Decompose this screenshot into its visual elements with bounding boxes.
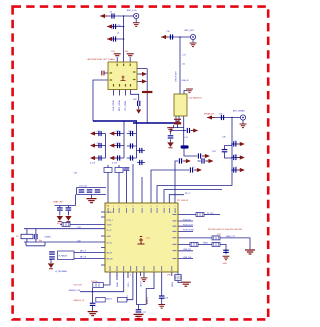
svg-text:JADD01_1k: JADD01_1k (74, 299, 85, 302)
svg-text:VBAT_RF: VBAT_RF (53, 201, 63, 204)
svg-text:4: 4 (116, 275, 117, 277)
svg-text:5: 5 (126, 206, 127, 208)
svg-text:T_06: T_06 (146, 238, 150, 240)
svg-text:GPIO2: GPIO2 (141, 281, 143, 287)
svg-text:GND: GND (223, 263, 228, 265)
svg-text:XO_N: XO_N (107, 242, 113, 244)
svg-text:USB_DP: USB_DP (183, 249, 192, 251)
svg-text:4: 4 (151, 206, 152, 208)
svg-text:RF_P: RF_P (185, 193, 191, 195)
svg-text:DET_SD08: DET_SD08 (119, 100, 121, 111)
svg-text:PCM_IN: PCM_IN (183, 219, 191, 221)
svg-text:R22 DNI 0402 1% 10k0 R23 0402: R22 DNI 0402 1% 10k0 R23 0402 NM (208, 229, 242, 231)
svg-text:OW_1V8: OW_1V8 (74, 284, 83, 286)
svg-text:0.1uF: 0.1uF (90, 163, 96, 165)
svg-text:SDA1: SDA1 (116, 282, 119, 287)
svg-text:TXD0: TXD0 (107, 224, 112, 226)
svg-text:ANT_1.5G: ANT_1.5G (127, 9, 137, 12)
svg-text:FL/SBD06: FL/SBD06 (59, 256, 68, 258)
svg-text:TP_VIO: TP_VIO (207, 213, 215, 215)
svg-text:SENSE_1V8: SENSE_1V8 (69, 290, 81, 292)
svg-text:USB_DM: USB_DM (183, 257, 192, 259)
svg-text:TP1 1.8/3.0V: TP1 1.8/3.0V (177, 200, 189, 202)
svg-text:DNI: DNI (133, 99, 137, 101)
svg-text:MIC_P: MIC_P (80, 250, 87, 252)
svg-text:4: 4 (142, 206, 143, 208)
svg-text:3: 3 (143, 275, 144, 277)
svg-text:SCL1: SCL1 (128, 282, 130, 287)
svg-text:LP_MICBIAS: LP_MICBIAS (55, 270, 67, 273)
svg-text:A/D01: A/D01 (106, 297, 112, 300)
svg-text:SER1: SER1 (203, 243, 209, 245)
svg-text:2: 2 (153, 275, 154, 277)
svg-text:WWAN_RF: WWAN_RF (204, 112, 215, 115)
svg-text:ANT_WWAN: ANT_WWAN (233, 110, 245, 113)
svg-text:VIO_SD08: VIO_SD08 (125, 100, 127, 111)
svg-text:1: 1 (171, 275, 172, 277)
svg-text:4: 4 (109, 275, 110, 277)
svg-text:PCM_SYNC: PCM_SYNC (183, 230, 195, 232)
svg-text:2: 2 (161, 275, 162, 277)
svg-text:4: 4 (123, 275, 124, 277)
svg-text:5: 5 (113, 206, 114, 208)
svg-text:7: 7 (108, 206, 109, 208)
svg-text:AC/THROUGH OUT 10dBm: AC/THROUGH OUT 10dBm (88, 58, 116, 61)
svg-text:VBUS: VBUS (172, 281, 174, 287)
svg-text:LGA_SD08: LGA_SD08 (112, 100, 115, 111)
svg-text:1: 1 (169, 206, 170, 208)
svg-text:3: 3 (130, 275, 131, 277)
svg-text:MIC_N: MIC_N (80, 257, 87, 259)
svg-text:ANT_GPS: ANT_GPS (185, 29, 195, 32)
svg-text:R3 10k: R3 10k (91, 281, 97, 283)
svg-text:XO_P: XO_P (107, 230, 113, 232)
svg-text:2: 2 (164, 206, 165, 208)
svg-text:26MHz: 26MHz (45, 237, 51, 239)
svg-text:5: 5 (119, 206, 120, 208)
svg-text:SER0_TX: SER0_TX (226, 236, 236, 238)
svg-text:RESET: RESET (107, 212, 114, 214)
svg-text:U10 MAX2659: U10 MAX2659 (189, 97, 203, 100)
svg-text:MIC1P: MIC1P (107, 252, 114, 254)
svg-text:LNA_IN: LNA_IN (182, 79, 190, 82)
svg-text:PON_1: PON_1 (107, 220, 113, 222)
svg-text:PCM_OUT: PCM_OUT (183, 225, 194, 227)
svg-text:3: 3 (136, 275, 137, 277)
svg-text:3: 3 (157, 206, 158, 208)
svg-text:U.FL-R-SMT: U.FL-R-SMT (176, 70, 178, 82)
svg-text:GND: GND (107, 236, 112, 238)
svg-text:GPIO1: GPIO1 (127, 295, 129, 301)
svg-text:AGND_L: AGND_L (146, 296, 149, 304)
svg-text:MIC1N: MIC1N (107, 258, 114, 260)
svg-text:2: 2 (175, 206, 176, 208)
svg-text:C41 C42: C41 C42 (79, 185, 88, 187)
svg-text:5: 5 (133, 206, 134, 208)
svg-text:0.1uF: 0.1uF (112, 163, 118, 165)
